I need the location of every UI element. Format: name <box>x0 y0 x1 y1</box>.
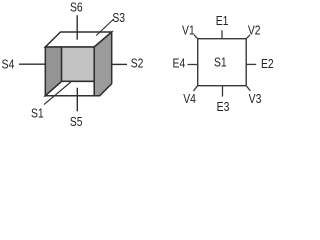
edge tick E2 <box>246 63 256 65</box>
cube right face (S2 side) <box>94 32 112 96</box>
svg-text:S1: S1 <box>214 55 227 70</box>
svg-text:E3: E3 <box>217 99 230 114</box>
axis line S5 <box>76 88 78 112</box>
cube interior left wall <box>45 47 61 96</box>
edge tick E1 <box>221 30 223 38</box>
axis line S3 <box>96 19 114 36</box>
svg-text:E2: E2 <box>261 56 274 71</box>
face square S1 (right diagram) <box>198 39 247 86</box>
cube top face (S6 side) <box>45 32 111 47</box>
cube interior floor <box>45 81 94 95</box>
svg-text:S5: S5 <box>70 114 83 129</box>
axis line S2 <box>112 63 127 65</box>
edge tick E3 <box>222 86 224 97</box>
axis line S6 <box>76 15 78 39</box>
svg-text:S2: S2 <box>131 55 144 70</box>
cube interior back wall (face S1) <box>62 47 95 81</box>
vertex tick V1 <box>194 35 198 39</box>
svg-text:S4: S4 <box>2 57 15 72</box>
svg-text:V2: V2 <box>248 22 261 37</box>
vertex tick V2 <box>246 35 250 39</box>
svg-text:V4: V4 <box>183 91 196 106</box>
vertex tick V3 <box>246 86 250 91</box>
svg-text:V3: V3 <box>249 91 262 106</box>
axis line S4 <box>19 63 45 65</box>
svg-text:S3: S3 <box>112 10 125 25</box>
vertex tick V4 <box>193 86 197 91</box>
axis line S1 <box>44 82 71 105</box>
edge tick E4 <box>188 64 198 66</box>
svg-text:S1: S1 <box>31 106 44 121</box>
svg-text:V1: V1 <box>182 22 195 37</box>
svg-text:E4: E4 <box>173 56 186 71</box>
svg-text:S6: S6 <box>70 0 83 14</box>
svg-text:E1: E1 <box>216 13 229 28</box>
